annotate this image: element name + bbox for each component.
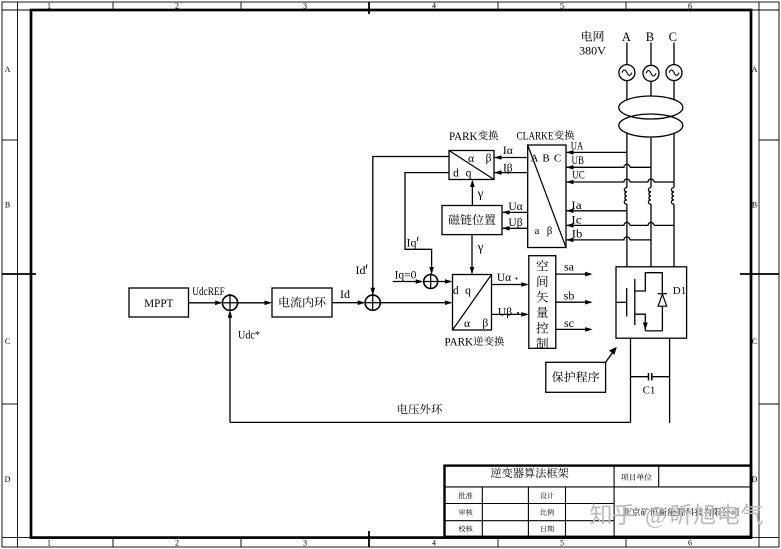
block space vector control: [529, 256, 556, 349]
svg-text:D: D: [752, 475, 758, 484]
svg-text:B: B: [752, 201, 757, 210]
wire Ialpha: [494, 155, 528, 160]
label D1: [673, 285, 686, 297]
svg-text:A: A: [531, 153, 539, 165]
svg-text:β: β: [482, 318, 488, 330]
label Ualpha: [508, 201, 522, 213]
svg-text:PARK: PARK: [445, 337, 474, 349]
label UB: [572, 155, 585, 167]
label scale: [541, 509, 554, 516]
svg-text:6: 6: [688, 1, 692, 10]
wire sc: [556, 327, 593, 332]
label Iq feedback: [407, 235, 419, 249]
wire Ic tap: [566, 222, 674, 227]
svg-text:MPPT: MPPT: [144, 296, 174, 310]
wire sa: [556, 272, 593, 277]
summing junction sum1: [222, 294, 237, 310]
title text inverter algorithm framework: [491, 468, 569, 478]
wire Ibeta: [494, 170, 528, 175]
wire sb: [556, 300, 593, 305]
svg-text:γ: γ: [477, 239, 484, 254]
svg-text:d: d: [453, 168, 459, 180]
wire Ualpha: [502, 210, 528, 215]
svg-text:3: 3: [303, 1, 307, 10]
svg-text:Uα: Uα: [497, 272, 511, 284]
label project unit: [621, 473, 652, 480]
svg-text:Udc*: Udc*: [238, 330, 260, 342]
wire gamma to PARK: [470, 180, 475, 206]
label UA: [571, 141, 584, 153]
svg-text:B: B: [5, 201, 10, 210]
wire UB tap: [566, 164, 651, 169]
svg-text:6: 6: [688, 538, 692, 547]
wire UC tap: [566, 179, 674, 184]
svg-text:q: q: [466, 168, 472, 180]
summing junction sum3: [424, 273, 438, 288]
AC source phase B: [643, 65, 659, 81]
svg-text:UdcREF: UdcREF: [192, 286, 225, 298]
svg-text:CLARKE: CLARKE: [517, 131, 554, 143]
label Ic: [571, 215, 582, 227]
svg-text:2: 2: [175, 1, 179, 10]
label Ibeta: [503, 162, 513, 174]
wire phase C vertical: [673, 43, 675, 267]
svg-text:Uβ: Uβ: [498, 307, 512, 319]
svg-text:α: α: [464, 318, 470, 330]
label Udc*: [238, 330, 260, 342]
wire Ib tap: [566, 237, 651, 242]
block protection program: [546, 362, 606, 392]
svg-text:A: A: [5, 65, 11, 74]
watermark zhihu: [590, 503, 762, 529]
wire Ubeta to SVM: [492, 312, 529, 317]
label C1: [643, 385, 656, 397]
svg-text:β: β: [547, 225, 553, 237]
svg-text:C: C: [5, 337, 10, 346]
wire DC bus right: [669, 338, 671, 423]
svg-text:sa: sa: [564, 260, 575, 274]
summing junction sum2: [365, 294, 380, 310]
label inverse PARK: [445, 336, 505, 348]
wire sum2 to inverse PARK: [380, 300, 452, 305]
block CLARKE transform: [528, 145, 566, 248]
label sa: [564, 260, 575, 274]
transistor Q1 with anti-parallel diode D1 (inverter block): [616, 267, 687, 338]
svg-text:d: d: [453, 285, 459, 297]
svg-text:a: a: [535, 225, 540, 237]
svg-text:q: q: [465, 285, 471, 297]
svg-text:Iα: Iα: [503, 145, 513, 157]
svg-text:sb: sb: [564, 288, 575, 302]
svg-text:1: 1: [47, 538, 51, 547]
company name: [623, 508, 739, 516]
label design: [540, 492, 554, 499]
label Ialpha: [503, 145, 513, 157]
block PARK transform: [449, 151, 494, 180]
label date: [541, 525, 554, 532]
label gamma upper: [477, 185, 484, 200]
AC source phase A: [619, 65, 635, 81]
svg-text:UC: UC: [572, 170, 585, 182]
label Ubeta: [508, 217, 522, 229]
svg-text:α: α: [468, 153, 474, 165]
svg-text:B: B: [542, 153, 549, 165]
wire phase A vertical: [626, 43, 628, 267]
wire Ia tap: [566, 209, 627, 214]
label Iq=0: [395, 270, 417, 282]
transformer T1 secondary winding: [619, 114, 683, 137]
block flux position: [442, 206, 502, 235]
block inverse PARK transform: [453, 275, 492, 331]
label sc: [564, 316, 574, 330]
svg-text:A: A: [752, 65, 758, 74]
label Ib: [572, 229, 583, 241]
svg-text:D: D: [5, 475, 11, 484]
svg-text:D1: D1: [673, 285, 686, 297]
svg-text:4: 4: [432, 538, 436, 547]
label approved: [459, 492, 473, 499]
svg-text:C1: C1: [643, 385, 656, 397]
svg-text:C: C: [669, 30, 677, 44]
label gamma lower: [477, 239, 484, 254]
wire phase B vertical: [650, 43, 652, 267]
inductor Lc: [671, 188, 674, 205]
svg-text:1: 1: [47, 1, 51, 10]
svg-text:Uα: Uα: [508, 201, 522, 213]
label Id feedback: [356, 263, 367, 277]
svg-text:Iq=0: Iq=0: [395, 270, 417, 282]
label Ubeta out: [498, 307, 519, 319]
inductor Lb: [648, 188, 651, 205]
svg-text:380V: 380V: [579, 44, 606, 58]
wire Ualpha to SVM: [492, 282, 529, 287]
label phase A: [622, 30, 631, 44]
wire sum1 to current loop: [238, 301, 273, 306]
svg-text:Iq: Iq: [407, 235, 417, 249]
label CLARKE transform: [517, 130, 575, 142]
wire Iq feedback loop: [405, 173, 449, 275]
wire UA tap: [566, 150, 627, 155]
title block grid: [445, 466, 752, 537]
wire MPPT to sum1: [189, 301, 223, 306]
AC source phase C: [666, 65, 682, 81]
svg-text:C: C: [752, 337, 757, 346]
svg-text:@: @: [645, 503, 667, 529]
block current inner loop: [272, 288, 332, 317]
wire protection arrow: [606, 347, 617, 362]
block MPPT: [129, 288, 189, 317]
svg-text:Uβ: Uβ: [508, 217, 522, 229]
label PARK transform: [449, 130, 498, 142]
svg-text:PARK: PARK: [449, 131, 478, 143]
wire gamma to inverse PARK: [470, 235, 475, 275]
svg-text:5: 5: [560, 538, 564, 547]
wire Ubeta: [502, 226, 528, 231]
svg-text:C: C: [554, 153, 561, 165]
inductor La: [624, 188, 627, 205]
label grid 380V: [579, 31, 606, 58]
wire sum3 to inverse PARK: [438, 279, 453, 284]
label voltage outer loop: [398, 404, 442, 415]
transformer T1 primary winding: [619, 96, 683, 119]
svg-text:4: 4: [432, 1, 436, 10]
svg-text:3: 3: [303, 538, 307, 547]
wire Id feedback loop: [371, 157, 450, 296]
wire current loop to sum2: [332, 300, 365, 305]
label Ualpha out: [497, 272, 518, 284]
label Ia: [571, 200, 582, 212]
label UdcREF: [192, 286, 225, 298]
svg-text:Id: Id: [340, 287, 350, 301]
capacitor C1: [631, 373, 670, 380]
svg-text:sc: sc: [564, 316, 574, 330]
label sb: [564, 288, 575, 302]
svg-text:Id: Id: [356, 263, 366, 277]
label checked: [459, 509, 473, 516]
wire Udc feedback up: [228, 310, 233, 422]
label Id: [340, 287, 350, 301]
svg-text:β: β: [486, 153, 492, 165]
label phase B: [646, 30, 654, 44]
wire voltage outer loop: [230, 421, 631, 423]
wire Iq=0 input: [393, 279, 424, 284]
svg-text:A: A: [622, 30, 631, 44]
svg-text:2: 2: [175, 538, 179, 547]
label phase C: [669, 30, 677, 44]
wire DC bus left: [630, 338, 632, 422]
label UC: [572, 170, 585, 182]
label verified: [459, 525, 473, 532]
svg-text:5: 5: [560, 1, 564, 10]
svg-text:B: B: [646, 30, 654, 44]
svg-text:γ: γ: [477, 185, 484, 200]
